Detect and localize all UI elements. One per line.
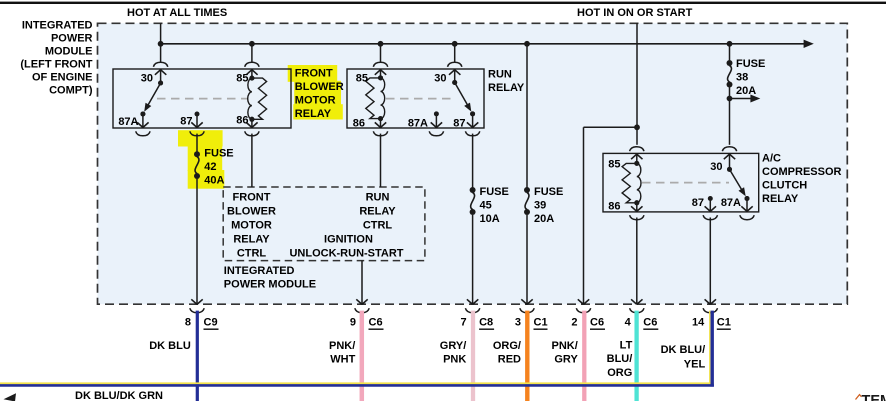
- svg-text:7: 7: [460, 317, 466, 329]
- svg-text:GRY/: GRY/: [440, 340, 467, 352]
- svg-text:COMPRESSOR: COMPRESSOR: [762, 166, 842, 178]
- svg-text:RED: RED: [498, 354, 521, 366]
- svg-text:ORG/: ORG/: [493, 340, 521, 352]
- svg-text:87A: 87A: [118, 116, 138, 128]
- svg-text:PNK/: PNK/: [552, 340, 578, 352]
- svg-text:CTRL: CTRL: [237, 248, 267, 260]
- svg-text:45: 45: [480, 200, 492, 212]
- svg-text:OF ENGINE: OF ENGINE: [32, 72, 93, 84]
- svg-text:C1: C1: [534, 317, 548, 329]
- svg-text:CLUTCH: CLUTCH: [762, 180, 807, 192]
- svg-text:BLOWER: BLOWER: [227, 206, 276, 218]
- svg-text:30: 30: [710, 161, 722, 173]
- svg-text:C9: C9: [204, 317, 218, 329]
- svg-text:C8: C8: [479, 317, 493, 329]
- svg-text:COMPT): COMPT): [49, 85, 93, 97]
- svg-text:85: 85: [356, 73, 368, 85]
- svg-text:FRONT: FRONT: [233, 192, 271, 204]
- svg-text:30: 30: [141, 73, 153, 85]
- svg-text:MODULE: MODULE: [45, 46, 93, 58]
- svg-text:87: 87: [453, 118, 465, 130]
- svg-text:MOTOR: MOTOR: [295, 95, 336, 107]
- svg-text:HOT AT ALL TIMES: HOT AT ALL TIMES: [127, 7, 227, 19]
- svg-text:20A: 20A: [736, 85, 756, 97]
- svg-text:C6: C6: [590, 317, 604, 329]
- svg-text:DK BLU/DK GRN: DK BLU/DK GRN: [75, 390, 163, 401]
- svg-text:9: 9: [350, 317, 356, 329]
- svg-text:IGNITION: IGNITION: [324, 234, 373, 246]
- svg-text:3: 3: [515, 317, 521, 329]
- svg-text:RUN: RUN: [488, 69, 512, 81]
- svg-text:(LEFT FRONT: (LEFT FRONT: [20, 59, 92, 71]
- svg-text:POWER: POWER: [51, 33, 93, 45]
- svg-text:86: 86: [236, 115, 248, 127]
- svg-text:DK BLU: DK BLU: [149, 340, 191, 352]
- svg-text:86: 86: [608, 201, 620, 213]
- svg-text:FUSE: FUSE: [204, 148, 233, 160]
- svg-text:10A: 10A: [480, 213, 500, 225]
- svg-text:40A: 40A: [204, 175, 224, 187]
- svg-text:42: 42: [204, 161, 216, 173]
- svg-text:RELAY: RELAY: [762, 193, 799, 205]
- svg-text:30: 30: [434, 73, 446, 85]
- svg-text:INTEGRATED: INTEGRATED: [22, 20, 93, 32]
- svg-text:RELAY: RELAY: [359, 206, 396, 218]
- svg-text:C6: C6: [643, 317, 657, 329]
- svg-text:39: 39: [534, 200, 546, 212]
- svg-text:87: 87: [692, 197, 704, 209]
- svg-text:A/C: A/C: [762, 153, 781, 165]
- svg-text:TEM: TEM: [862, 393, 886, 401]
- svg-text:INTEGRATED: INTEGRATED: [224, 265, 295, 277]
- svg-text:20A: 20A: [534, 213, 554, 225]
- svg-text:86: 86: [353, 118, 365, 130]
- svg-text:CTRL: CTRL: [363, 220, 393, 232]
- svg-text:RUN: RUN: [366, 192, 390, 204]
- svg-text:YEL: YEL: [684, 358, 706, 370]
- svg-text:87A: 87A: [408, 118, 428, 130]
- svg-text:85: 85: [236, 73, 248, 85]
- svg-text:87A: 87A: [721, 197, 741, 209]
- svg-text:87: 87: [180, 116, 192, 128]
- svg-text:DK BLU/: DK BLU/: [661, 344, 706, 356]
- svg-text:UNLOCK-RUN-START: UNLOCK-RUN-START: [289, 248, 403, 260]
- svg-text:85: 85: [608, 159, 620, 171]
- svg-text:14: 14: [692, 317, 705, 329]
- svg-text:POWER MODULE: POWER MODULE: [224, 279, 316, 291]
- svg-text:MOTOR: MOTOR: [231, 220, 272, 232]
- svg-text:WHT: WHT: [330, 354, 355, 366]
- svg-text:C6: C6: [369, 317, 383, 329]
- svg-text:8: 8: [185, 317, 191, 329]
- svg-text:RELAY: RELAY: [488, 82, 525, 94]
- svg-text:GRY: GRY: [554, 354, 578, 366]
- svg-text:RELAY: RELAY: [233, 234, 270, 246]
- svg-text:PNK: PNK: [443, 354, 466, 366]
- svg-text:4: 4: [625, 317, 632, 329]
- svg-text:RELAY: RELAY: [295, 108, 332, 120]
- svg-text:FUSE: FUSE: [480, 186, 509, 198]
- svg-text:HOT IN ON OR START: HOT IN ON OR START: [577, 7, 693, 19]
- svg-text:ORG: ORG: [607, 367, 632, 379]
- svg-text:FUSE: FUSE: [534, 186, 563, 198]
- svg-text:C1: C1: [717, 317, 731, 329]
- svg-text:BLOWER: BLOWER: [295, 81, 344, 93]
- svg-text:PNK/: PNK/: [329, 340, 355, 352]
- svg-text:BLU/: BLU/: [607, 353, 633, 365]
- svg-text:LT: LT: [620, 339, 633, 351]
- svg-text:2: 2: [571, 317, 577, 329]
- svg-text:FRONT: FRONT: [295, 68, 333, 80]
- svg-text:38: 38: [736, 72, 748, 84]
- svg-text:FUSE: FUSE: [736, 58, 765, 70]
